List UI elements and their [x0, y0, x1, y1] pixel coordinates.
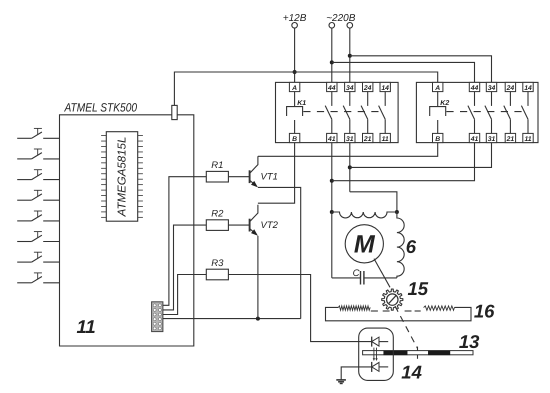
relay K2 terminal 24	[505, 82, 515, 91]
relay K1 terminal A	[289, 82, 299, 91]
relay K2 terminal A	[433, 82, 443, 91]
svg-text:R1: R1	[211, 160, 223, 171]
svg-text:14: 14	[401, 362, 422, 383]
wire photodiode to ground	[341, 367, 372, 380]
relay K1 block	[276, 82, 399, 142]
relay K2 block	[416, 82, 538, 142]
wire to capacitor	[332, 277, 361, 279]
relay K1 terminal 11	[380, 133, 390, 143]
svg-text:34: 34	[488, 85, 496, 92]
svg-text:R2: R2	[211, 209, 224, 220]
wire connector to R1	[163, 177, 206, 306]
transistor VT2	[228, 205, 278, 236]
relay K2 terminal 14	[523, 82, 533, 91]
relay K1 armature linkage	[303, 111, 381, 113]
wire ~220V phase 1 to relay K2 terminal 44	[332, 62, 475, 82]
svg-text:13: 13	[459, 331, 480, 352]
svg-text:~220В: ~220В	[326, 13, 356, 24]
pushbutton switch SB4	[17, 190, 59, 200]
wire VT1 emitter to common rail	[258, 187, 301, 318]
wire +12V rail to fuse and relay K2 terminal A	[174, 72, 437, 105]
resistor R3	[206, 258, 228, 280]
wire K1-41 to K2-41	[332, 143, 475, 181]
svg-text:B: B	[435, 136, 440, 143]
svg-text:A: A	[291, 85, 297, 92]
junction ~220V phase 2	[348, 54, 352, 58]
relay K1 terminal 14	[380, 82, 390, 91]
svg-text:C: C	[353, 268, 360, 279]
motor auxiliary winding	[397, 212, 404, 278]
svg-text:ATMEGA5815L: ATMEGA5815L	[117, 137, 129, 218]
svg-text:41: 41	[470, 136, 479, 143]
svg-text:VT2: VT2	[261, 220, 279, 231]
photodiode	[372, 362, 389, 372]
svg-text:ATMEL STK500: ATMEL STK500	[64, 101, 138, 115]
svg-text:15: 15	[408, 278, 429, 299]
motor rotor circle	[345, 225, 383, 263]
wire 31 bus to motor (right)	[350, 192, 397, 212]
svg-text:11: 11	[382, 136, 389, 143]
optical sensor 14	[359, 328, 394, 380]
svg-text:11: 11	[77, 316, 96, 337]
relay K2 contact 1	[468, 91, 475, 133]
wire relay K1 terminal 41 to motor (left)	[331, 143, 333, 212]
motor main winding	[332, 212, 397, 218]
svg-text:A: A	[434, 85, 440, 92]
relay K2 contact 4	[521, 91, 528, 133]
relay K1 terminal 41	[327, 133, 337, 143]
pushbutton switch SB1	[17, 128, 59, 138]
light beams	[373, 348, 378, 361]
ISP connector X1	[152, 302, 163, 332]
junction motor left	[330, 210, 334, 214]
relay K2 terminal 31	[486, 133, 496, 143]
gear 15	[382, 289, 403, 310]
pushbutton switch SB6	[17, 232, 59, 242]
pushbutton switch SB8	[17, 273, 59, 283]
gear-strip mechanical link (dashed)	[395, 306, 418, 348]
wire capacitor to aux winding	[364, 277, 397, 279]
relay K1 contact 1	[325, 91, 332, 133]
relay K1 contact 2	[343, 91, 350, 133]
relay K2 terminal 44	[469, 82, 479, 91]
resistor R2	[206, 209, 228, 231]
relay K1 terminal 24	[363, 82, 373, 91]
relay K2 terminal 11	[523, 133, 533, 143]
capacitor C	[353, 268, 364, 285]
svg-text:16: 16	[474, 300, 495, 321]
wire +12V down to relay K1 terminal A	[294, 28, 296, 82]
wire connector to R2	[163, 225, 206, 310]
strip pointer tick	[417, 347, 419, 359]
motor M 6	[330, 210, 404, 285]
pushbutton switch SB2	[17, 149, 59, 159]
junction 41 bus	[330, 179, 334, 183]
relay K2 contact 3	[504, 91, 511, 133]
wire ~220V phase 2 to relay K2 terminal 34	[350, 56, 492, 83]
pushbutton switch SB3	[17, 170, 59, 180]
relay K1 terminal 31	[345, 133, 355, 143]
svg-text:44: 44	[327, 85, 336, 92]
wire VT1 collector to relay K2 terminal B	[258, 143, 438, 157]
wire VT2 emitter down to common rail	[257, 236, 259, 319]
IC U1 ATMEGA8515L	[101, 132, 143, 222]
relay K1 terminal 34	[345, 82, 355, 91]
junction motor right	[395, 210, 399, 214]
wire K1-31 to K2-31	[350, 143, 492, 168]
relay K1 terminal 44	[327, 82, 337, 91]
wire R3 to optocoupler LED	[228, 275, 371, 342]
svg-text:31: 31	[488, 136, 496, 143]
relay K1 contact 3	[361, 91, 368, 133]
junction ~220V phase 1	[330, 60, 334, 64]
terminal ~220V	[326, 13, 356, 28]
fuse/power connector on box edge	[172, 105, 177, 119]
pushbutton switch SB5	[17, 211, 59, 221]
wire ~220V phase 1 down to relay K1 terminal 44	[331, 28, 333, 82]
relay K2 terminal 41	[469, 133, 479, 143]
svg-text:K2: K2	[440, 100, 449, 107]
svg-text:44: 44	[470, 85, 479, 92]
resistor R1	[206, 160, 228, 182]
svg-text:R3: R3	[211, 258, 224, 269]
svg-text:21: 21	[506, 136, 515, 143]
relay K2 armature linkage	[446, 111, 524, 113]
relay K2 terminal 34	[486, 82, 496, 91]
svg-text:M: M	[354, 230, 376, 258]
wire winding left side	[331, 212, 333, 278]
svg-text:24: 24	[506, 85, 515, 92]
STK500 board box 11	[60, 115, 194, 346]
svg-text:24: 24	[363, 85, 372, 92]
rack 16	[326, 306, 472, 321]
relay K2 contact 2	[485, 91, 492, 133]
svg-text:6: 6	[406, 236, 417, 257]
relay coil K1	[287, 91, 307, 133]
svg-text:VT1: VT1	[261, 171, 278, 182]
wire VT2 collector to relay K1 terminal B	[258, 143, 295, 204]
ground	[336, 380, 346, 384]
junction +12V rail	[293, 70, 297, 74]
svg-text:41: 41	[327, 136, 336, 143]
terminal +12V	[283, 13, 307, 28]
pushbutton switch SB7	[17, 252, 59, 262]
svg-text:K1: K1	[297, 100, 306, 107]
relay K1 contact 4	[379, 91, 386, 133]
emitter common wire	[163, 318, 301, 320]
relay K1 terminal B	[289, 133, 299, 143]
relay K1 terminal 21	[363, 133, 373, 143]
svg-text:14: 14	[381, 85, 389, 92]
svg-text:21: 21	[363, 136, 372, 143]
LED diode	[372, 337, 389, 347]
svg-text:31: 31	[346, 136, 354, 143]
relay K2 terminal 21	[505, 133, 515, 143]
relay coil K2	[430, 91, 450, 133]
svg-text:11: 11	[524, 136, 531, 143]
svg-text:B: B	[292, 136, 297, 143]
rack root dashes	[371, 310, 378, 312]
svg-text:+12В: +12В	[283, 13, 307, 24]
wire connector to R3	[163, 275, 206, 315]
relay K2 terminal B	[433, 133, 443, 143]
junction VT2 emitter	[256, 317, 260, 321]
svg-text:34: 34	[346, 85, 354, 92]
wire relay K1 terminal 31 down	[349, 143, 351, 192]
motor shaft	[374, 259, 390, 288]
svg-text:14: 14	[524, 85, 532, 92]
junction 31 bus	[348, 165, 352, 169]
transistor VT1	[228, 156, 278, 187]
wire ~220V phase 2 down to relay K1 terminal 34	[349, 28, 351, 82]
encoder strip 13	[363, 351, 473, 355]
